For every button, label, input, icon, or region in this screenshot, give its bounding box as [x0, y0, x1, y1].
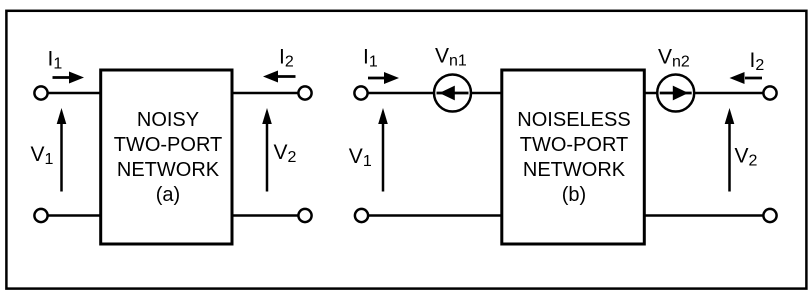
wire top-left (a)	[47, 92, 100, 95]
wire top-right (a)	[231, 92, 299, 95]
svg-text:V1: V1	[349, 145, 372, 170]
svg-text:(a): (a)	[156, 184, 180, 206]
current arrow I1 (b)	[368, 72, 399, 84]
wire bottom-right (a)	[231, 214, 299, 217]
wire bottom-right (b)	[644, 214, 764, 217]
wire top-right (b)	[644, 92, 764, 95]
svg-text:(b): (b)	[562, 184, 586, 206]
current arrow I2 (b)	[730, 72, 763, 84]
current arrow I2 (a)	[263, 71, 296, 83]
svg-text:NETWORK: NETWORK	[117, 159, 220, 181]
svg-text:TWO-PORT: TWO-PORT	[114, 134, 223, 156]
terminal port 2+ (b)	[763, 86, 776, 99]
two-port box U1 (a)	[101, 70, 232, 244]
svg-text:Vn1: Vn1	[435, 45, 467, 70]
terminal port 2- (a)	[298, 209, 311, 222]
voltage arrow V2 (a)	[262, 108, 272, 192]
svg-text:I2: I2	[279, 46, 294, 71]
svg-text:Vn2: Vn2	[658, 46, 690, 71]
two-port box U2 (b)	[502, 70, 645, 244]
terminal port 1- (b)	[355, 209, 368, 222]
label NOISY TWO-PORT NETWORK (a)	[114, 109, 223, 206]
svg-text:V1: V1	[31, 143, 54, 168]
svg-text:NOISY: NOISY	[137, 109, 199, 131]
svg-text:I1: I1	[48, 48, 63, 73]
voltage arrow V1 (b)	[378, 108, 388, 192]
wire top-left (b)	[367, 92, 502, 95]
label NOISELESS TWO-PORT NETWORK (b)	[517, 109, 630, 206]
terminal port 1+ (a)	[34, 86, 47, 99]
terminal port 1+ (b)	[354, 86, 367, 99]
svg-text:NOISELESS: NOISELESS	[517, 109, 630, 131]
svg-text:I1: I1	[363, 46, 378, 71]
svg-text:NETWORK: NETWORK	[523, 159, 626, 181]
noise voltage source Vn2	[657, 75, 694, 112]
current arrow I1 (a)	[53, 72, 85, 84]
terminal port 2- (b)	[763, 209, 776, 222]
svg-text:V2: V2	[735, 145, 758, 170]
svg-text:TWO-PORT: TWO-PORT	[520, 134, 629, 156]
terminal port 1- (a)	[34, 209, 47, 222]
svg-text:I2: I2	[750, 49, 765, 74]
voltage arrow V1 (a)	[57, 108, 67, 192]
terminal port 2+ (a)	[298, 86, 311, 99]
noise voltage source Vn1	[434, 75, 471, 112]
wire bottom-left (b)	[367, 214, 502, 217]
svg-text:V2: V2	[274, 141, 297, 166]
wire bottom-left (a)	[47, 214, 100, 217]
voltage arrow V2 (b)	[725, 108, 735, 192]
